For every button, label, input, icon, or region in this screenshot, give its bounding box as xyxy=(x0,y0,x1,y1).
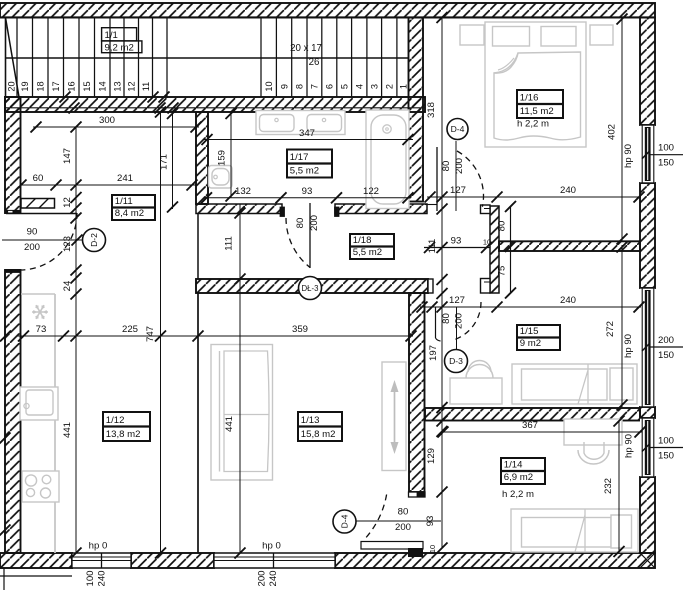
svg-text:150: 150 xyxy=(658,158,674,169)
svg-text:DŁ-3: DŁ-3 xyxy=(302,284,319,293)
svg-text:318: 318 xyxy=(426,102,437,118)
svg-text:441: 441 xyxy=(224,416,235,432)
svg-text:D-3: D-3 xyxy=(449,356,463,366)
svg-text:24: 24 xyxy=(62,280,73,291)
svg-text:200: 200 xyxy=(24,242,40,253)
svg-text:75: 75 xyxy=(497,266,508,277)
svg-text:10: 10 xyxy=(264,81,274,91)
svg-text:359: 359 xyxy=(292,324,308,335)
svg-text:73: 73 xyxy=(36,324,47,335)
svg-text:80: 80 xyxy=(441,313,452,324)
svg-text:200: 200 xyxy=(257,570,268,586)
svg-text:159: 159 xyxy=(217,150,228,166)
svg-text:1/1: 1/1 xyxy=(105,30,118,41)
svg-text:9 m2: 9 m2 xyxy=(520,338,541,349)
svg-text:5,5 m2: 5,5 m2 xyxy=(290,165,319,176)
svg-text:93: 93 xyxy=(451,236,462,247)
svg-text:127: 127 xyxy=(450,185,466,196)
svg-text:D-2: D-2 xyxy=(89,233,99,247)
svg-text:200: 200 xyxy=(309,215,320,231)
svg-text:4: 4 xyxy=(355,84,365,89)
svg-text:241: 241 xyxy=(117,173,133,184)
svg-text:hp 90: hp 90 xyxy=(624,434,635,458)
svg-text:20 x 17: 20 x 17 xyxy=(290,43,322,54)
svg-text:1/13: 1/13 xyxy=(301,415,320,426)
svg-text:132: 132 xyxy=(235,186,251,197)
svg-text:100: 100 xyxy=(658,143,674,154)
svg-text:402: 402 xyxy=(607,124,618,140)
svg-text:200: 200 xyxy=(454,313,465,329)
svg-text:13: 13 xyxy=(112,81,122,91)
svg-text:1/14: 1/14 xyxy=(504,459,523,470)
svg-text:240: 240 xyxy=(560,185,576,196)
svg-text:122: 122 xyxy=(363,186,379,197)
svg-text:6: 6 xyxy=(325,84,335,89)
svg-text:18: 18 xyxy=(36,81,46,91)
svg-text:90: 90 xyxy=(27,227,38,238)
svg-text:hp 90: hp 90 xyxy=(623,334,634,358)
svg-text:747: 747 xyxy=(145,326,156,342)
svg-text:60: 60 xyxy=(33,173,44,184)
svg-text:D-4: D-4 xyxy=(340,514,350,528)
svg-text:3: 3 xyxy=(370,84,380,89)
svg-text:hp 90: hp 90 xyxy=(623,144,634,168)
svg-text:1/15: 1/15 xyxy=(520,326,539,337)
svg-text:1/12: 1/12 xyxy=(106,415,125,426)
svg-text:D-4: D-4 xyxy=(451,124,465,134)
svg-text:hp 0: hp 0 xyxy=(262,541,281,552)
svg-text:200: 200 xyxy=(395,522,411,533)
svg-text:300: 300 xyxy=(99,115,115,126)
svg-text:1/11: 1/11 xyxy=(115,196,133,207)
svg-text:1/18: 1/18 xyxy=(353,235,372,246)
svg-text:1/16: 1/16 xyxy=(520,92,539,103)
svg-text:240: 240 xyxy=(97,570,108,586)
svg-text:14: 14 xyxy=(98,81,108,91)
svg-text:1/17: 1/17 xyxy=(290,152,309,163)
svg-text:19: 19 xyxy=(20,81,30,91)
svg-text:13,8 m2: 13,8 m2 xyxy=(106,429,141,440)
svg-text:9: 9 xyxy=(279,84,289,89)
svg-text:12: 12 xyxy=(127,81,137,91)
svg-text:100: 100 xyxy=(85,570,96,586)
svg-text:240: 240 xyxy=(560,295,576,306)
svg-text:h 2,2 m: h 2,2 m xyxy=(517,119,549,130)
svg-text:6,9 m2: 6,9 m2 xyxy=(504,472,533,483)
svg-text:127: 127 xyxy=(449,295,465,306)
svg-text:111: 111 xyxy=(224,236,235,251)
svg-text:17: 17 xyxy=(51,81,61,91)
svg-text:15,8 m2: 15,8 m2 xyxy=(301,429,336,440)
svg-text:147: 147 xyxy=(62,148,73,164)
svg-text:93: 93 xyxy=(302,186,313,197)
svg-text:5: 5 xyxy=(340,84,350,89)
svg-text:240: 240 xyxy=(268,570,279,586)
svg-text:h 2,2 m: h 2,2 m xyxy=(502,489,534,500)
svg-text:171: 171 xyxy=(159,154,170,170)
svg-text:367: 367 xyxy=(522,420,538,431)
svg-text:347: 347 xyxy=(299,128,315,139)
svg-text:441: 441 xyxy=(62,422,73,438)
svg-text:80: 80 xyxy=(398,507,409,518)
svg-text:100: 100 xyxy=(658,436,674,447)
svg-text:80: 80 xyxy=(497,221,508,232)
svg-text:5,5 m2: 5,5 m2 xyxy=(353,247,382,258)
svg-text:150: 150 xyxy=(658,451,674,462)
svg-text:26: 26 xyxy=(309,57,320,68)
svg-text:150: 150 xyxy=(658,350,674,361)
svg-text:232: 232 xyxy=(603,478,614,494)
svg-text:11: 11 xyxy=(141,82,151,92)
svg-text:10: 10 xyxy=(428,545,437,553)
svg-text:129: 129 xyxy=(426,448,437,464)
svg-text:8,4 m2: 8,4 m2 xyxy=(115,208,144,219)
svg-text:272: 272 xyxy=(605,321,616,337)
svg-text:11,5 m2: 11,5 m2 xyxy=(520,106,554,117)
svg-text:2: 2 xyxy=(385,84,395,89)
svg-text:93: 93 xyxy=(425,516,436,527)
svg-text:7: 7 xyxy=(310,84,320,89)
svg-text:16: 16 xyxy=(67,81,77,91)
svg-text:15: 15 xyxy=(82,81,92,91)
svg-text:200: 200 xyxy=(658,335,674,346)
svg-text:20: 20 xyxy=(7,81,17,91)
svg-text:80: 80 xyxy=(295,218,306,229)
svg-text:111: 111 xyxy=(427,239,438,254)
svg-text:12: 12 xyxy=(62,197,73,208)
svg-text:200: 200 xyxy=(454,158,465,174)
svg-text:8: 8 xyxy=(295,84,305,89)
svg-text:225: 225 xyxy=(122,324,138,335)
svg-text:197: 197 xyxy=(428,345,439,361)
svg-text:1: 1 xyxy=(398,84,408,89)
svg-text:9,2 m2: 9,2 m2 xyxy=(105,42,134,53)
svg-text:80: 80 xyxy=(441,161,452,172)
svg-text:hp 0: hp 0 xyxy=(89,541,108,552)
